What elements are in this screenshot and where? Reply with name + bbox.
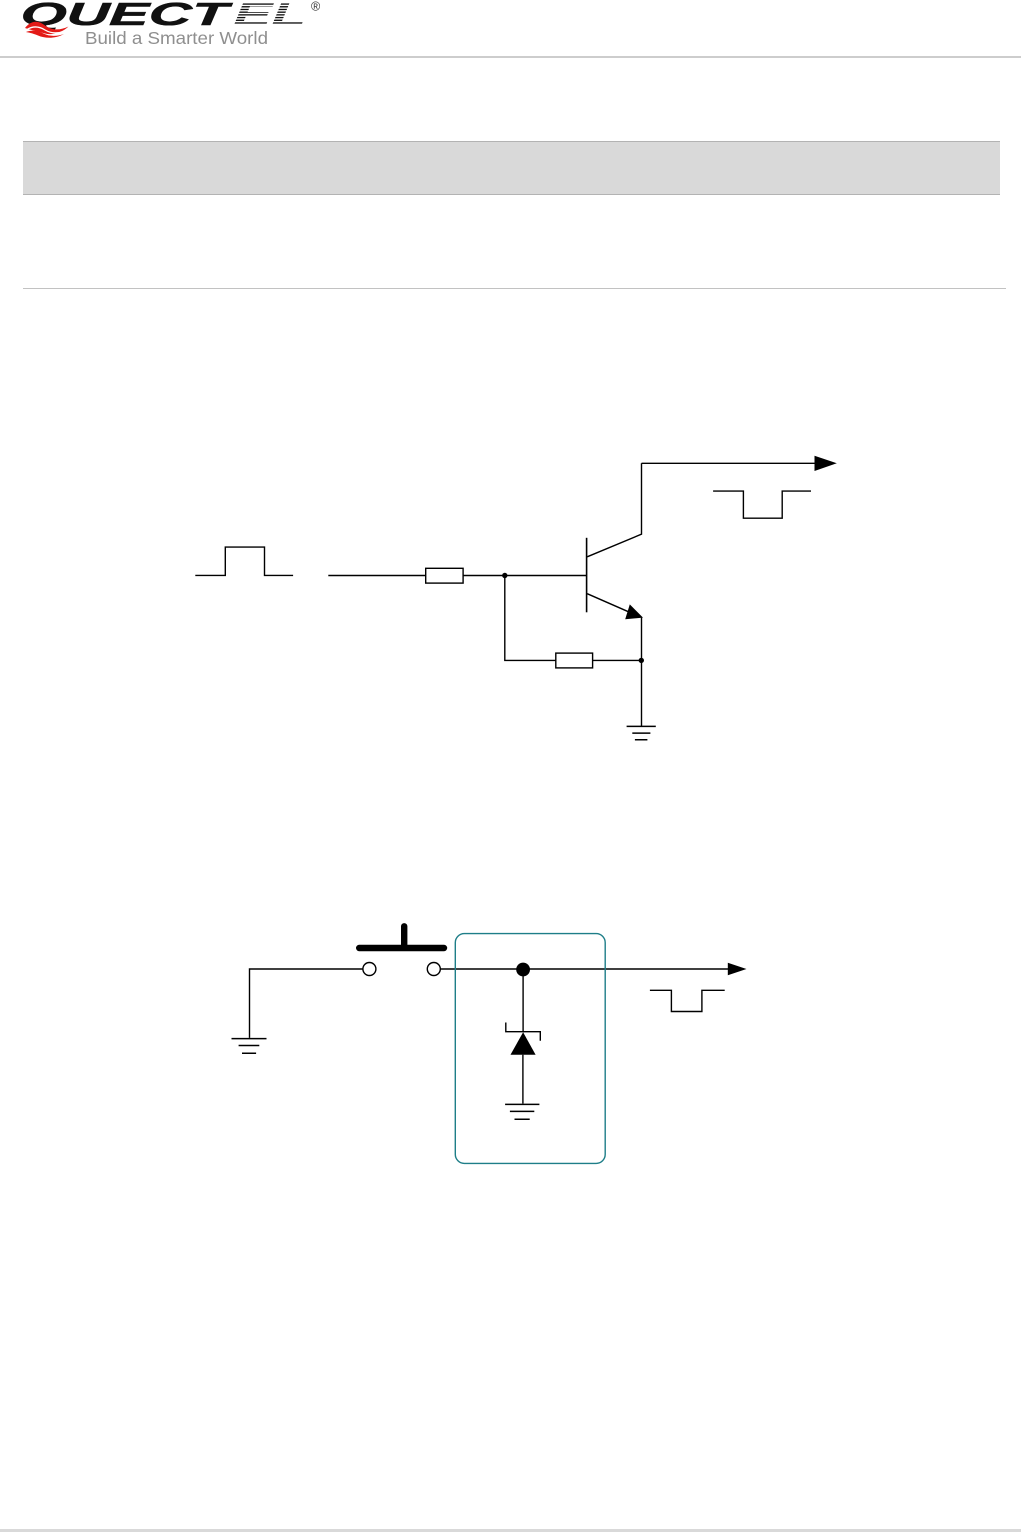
wordmark QUECT [20, 0, 235, 32]
node TVS junction [516, 963, 530, 977]
emitter wire down [641, 618, 643, 727]
wire R1 to base [463, 575, 586, 577]
sub rule [23, 288, 1006, 289]
emitter arrow [625, 604, 643, 619]
input pulse waveform [195, 547, 293, 575]
transistor Q1 base bar [586, 538, 588, 613]
wire switch to output [440, 968, 728, 970]
switch S1 contact left [363, 963, 376, 976]
resistor R1 [426, 568, 463, 583]
red swoosh [25, 22, 69, 38]
output pulse waveform 2 (inverted) [650, 990, 725, 1011]
output pulse waveform (inverted) [713, 491, 811, 518]
switch S1 contact right [427, 963, 440, 976]
footer bar [0, 1529, 1021, 1532]
header rule [0, 56, 1021, 59]
transistor Q1 emitter [587, 594, 637, 616]
output arrow [815, 456, 837, 471]
node base junction [502, 573, 507, 578]
wire node to diode [522, 970, 524, 1032]
diode D1 cathode bar [506, 1023, 541, 1041]
output arrow 2 [728, 963, 747, 976]
Quectel logo [0, 0, 360, 56]
transistor Q1 collector [587, 463, 641, 557]
wire from ground to switch [250, 969, 363, 1038]
output wire [642, 462, 817, 464]
node emitter junction [639, 658, 644, 663]
wire base input [328, 575, 425, 577]
wire node down [505, 576, 556, 661]
ground G3 [505, 1104, 539, 1119]
wire diode to ground [522, 1055, 524, 1104]
TVS box [455, 934, 605, 1164]
section title band [23, 141, 1000, 195]
diode D1 triangle [511, 1032, 536, 1055]
switch S1 actuator [359, 926, 444, 948]
wire R2 to emitter node [593, 659, 642, 661]
ground G2 [232, 1039, 267, 1054]
resistor R2 [556, 653, 593, 668]
ground G1 [627, 726, 656, 739]
wordmark EL striped [233, 0, 308, 32]
